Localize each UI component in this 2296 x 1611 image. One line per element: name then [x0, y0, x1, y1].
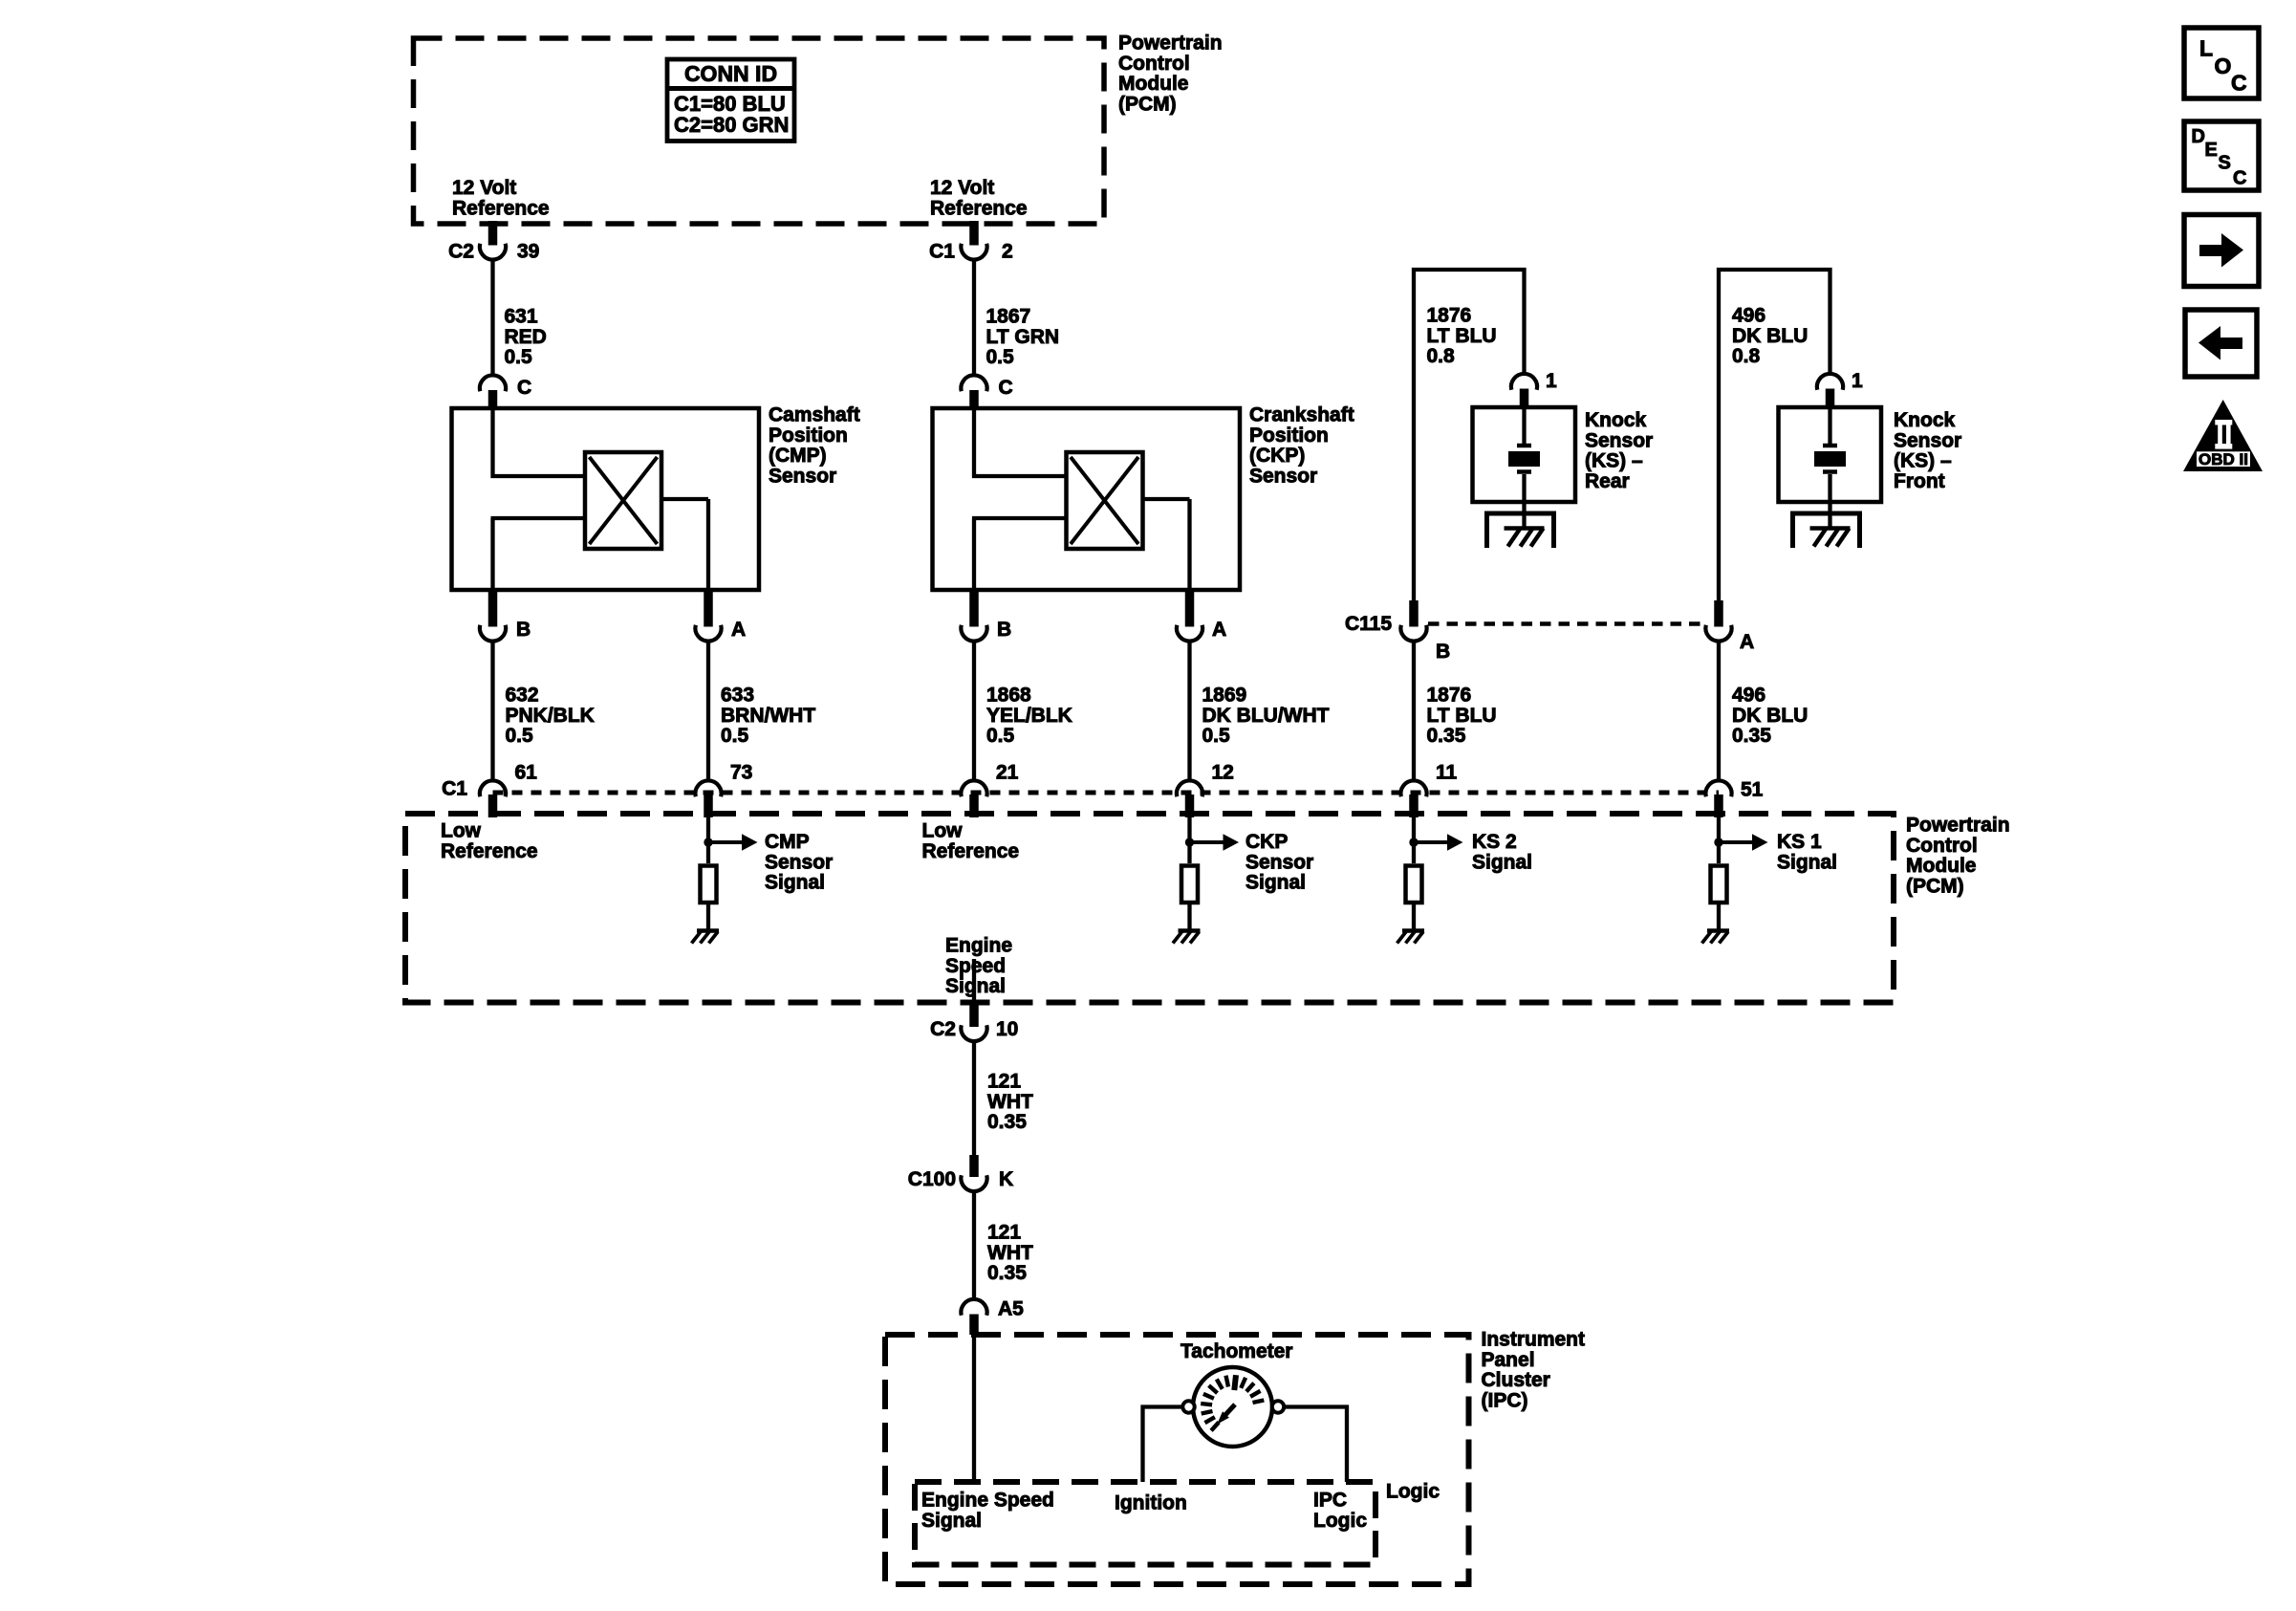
box: Crankshaft Position (CKP) Sensor	[933, 408, 1241, 590]
svg-text:LT BLU: LT BLU	[1427, 325, 1497, 347]
svg-text:1867: 1867	[986, 306, 1031, 328]
svg-text:Instrument: Instrument	[1482, 1329, 1586, 1351]
svg-text:C100: C100	[908, 1168, 956, 1190]
svg-text:Position: Position	[1249, 425, 1329, 446]
svg-text:C1: C1	[442, 778, 467, 800]
box: IPC Logic, dashed outline	[915, 1482, 1375, 1565]
svg-text:21: 21	[996, 762, 1019, 784]
table: CONN ID	[667, 59, 794, 142]
piezo element (KS rear)	[1508, 409, 1540, 528]
svg-text:12 Volt: 12 Volt	[930, 177, 994, 199]
svg-text:0.5: 0.5	[505, 346, 533, 368]
wire: CKP pin A internal	[1143, 499, 1190, 590]
ground (KS 1 signal)	[1702, 931, 1730, 944]
svg-text:D: D	[2192, 126, 2205, 147]
svg-text:0.8: 0.8	[1427, 345, 1456, 367]
box: Knock Sensor (KS) Rear	[1473, 407, 1576, 502]
label: wire 1868 YEL/BLK 0.5	[986, 685, 1072, 748]
wire 633 BRN/WHT 0.5	[706, 642, 710, 781]
svg-text:Engine Speed: Engine Speed	[921, 1490, 1054, 1512]
connector pin C of CKP sensor	[961, 375, 1012, 410]
svg-text:C2: C2	[930, 1018, 956, 1040]
connector pin A of CKP sensor	[1177, 590, 1226, 642]
svg-text:Reference: Reference	[452, 197, 550, 219]
svg-text:Sensor: Sensor	[1245, 851, 1313, 873]
svg-text:WHT: WHT	[987, 1242, 1033, 1264]
box: Knock Sensor (KS) Front	[1779, 407, 1882, 502]
svg-text:Panel: Panel	[1482, 1349, 1535, 1371]
svg-text:A5: A5	[998, 1298, 1024, 1320]
label: Logic	[1386, 1481, 1440, 1503]
label: KS 2 Signal	[1472, 831, 1532, 873]
svg-text:Control: Control	[1906, 835, 1978, 857]
wire 632 PNK/BLK 0.5	[490, 642, 494, 781]
connector pin B of CKP sensor	[961, 590, 1011, 642]
wire: CKP pin C internal	[972, 410, 1067, 478]
svg-text:39: 39	[517, 241, 539, 263]
svg-text:1876: 1876	[1427, 685, 1472, 707]
svg-text:B: B	[997, 619, 1011, 641]
connector pin 73 into PCM	[695, 762, 752, 818]
wire to ground (CKP)	[1187, 903, 1191, 929]
svg-text:0.5: 0.5	[721, 725, 749, 747]
label: wire 1876 LT BLU 0.35	[1427, 685, 1497, 748]
label: KS 1 Signal	[1777, 831, 1837, 873]
svg-text:632: 632	[506, 685, 539, 707]
svg-text:1: 1	[1852, 370, 1863, 392]
svg-text:121: 121	[987, 1222, 1021, 1244]
svg-text:O: O	[2215, 54, 2232, 78]
svg-text:WHT: WHT	[987, 1091, 1033, 1113]
svg-text:Reference: Reference	[922, 840, 1020, 862]
box: Powertrain Control Module (PCM) bottom, dashed outline	[405, 814, 1894, 1003]
label: Knock Sensor (KS) Rear	[1585, 409, 1653, 492]
resistor (CKP signal pull-up)	[1181, 866, 1198, 903]
label: wire 121 WHT 0.35 lower	[987, 1222, 1033, 1285]
label: wire 121 WHT 0.35 upper	[987, 1071, 1033, 1134]
icon: arrow left	[2185, 310, 2257, 377]
wire 1869 DK BLU/WHT 0.5	[1187, 642, 1191, 781]
svg-text:Logic: Logic	[1386, 1481, 1440, 1503]
resistor (CMP signal pull-up)	[701, 866, 717, 903]
svg-text:RED: RED	[505, 326, 547, 348]
svg-text:E: E	[2205, 140, 2218, 161]
svg-text:0.35: 0.35	[1732, 725, 1771, 747]
svg-text:(PCM): (PCM)	[1906, 875, 1964, 897]
wire: engine speed signal to PCM pin	[972, 959, 976, 1002]
svg-text:Signal: Signal	[1245, 872, 1306, 894]
svg-text:Sensor: Sensor	[769, 465, 836, 487]
svg-text:0.8: 0.8	[1732, 345, 1761, 367]
svg-text:Reference: Reference	[441, 840, 538, 862]
svg-text:0.35: 0.35	[1427, 725, 1466, 747]
svg-text:CONN ID: CONN ID	[684, 61, 777, 86]
svg-text:Sensor: Sensor	[765, 851, 833, 873]
svg-text:Rear: Rear	[1585, 470, 1630, 492]
connector C2 pin 10 (engine speed signal out)	[930, 1002, 1018, 1041]
svg-text:C115: C115	[1345, 613, 1392, 635]
label: wire 1867 LT GRN 0.5	[986, 306, 1060, 369]
svg-text:Signal: Signal	[1777, 851, 1837, 873]
connector C115 pin B	[1345, 600, 1450, 663]
svg-text:Signal: Signal	[921, 1510, 982, 1532]
svg-text:C: C	[2233, 168, 2246, 189]
label: wire 1869 DK BLU/WHT 0.5	[1202, 685, 1330, 748]
svg-text:(KS) –: (KS) –	[1894, 450, 1952, 472]
svg-text:0.35: 0.35	[987, 1111, 1027, 1133]
wire 496 DK BLU 0.8 (KS front feed)	[1719, 270, 1830, 603]
svg-text:CKP: CKP	[1245, 831, 1288, 853]
svg-text:496: 496	[1732, 305, 1765, 327]
wire: A5 to IPC logic	[972, 1337, 976, 1482]
svg-text:Powertrain: Powertrain	[1118, 33, 1223, 54]
label: Engine Speed Signal	[945, 935, 1012, 998]
connector pin C of CMP sensor	[480, 375, 531, 410]
label: CMP Sensor Signal	[765, 831, 833, 894]
svg-text:C: C	[999, 377, 1013, 399]
box: Instrument Panel Cluster (IPC), dashed outline	[885, 1335, 1469, 1584]
sensor element X (CMP)	[585, 452, 661, 549]
svg-text:KS 2: KS 2	[1472, 831, 1517, 853]
connector pin 12 into PCM	[1177, 762, 1234, 818]
resistor (KS 1 signal)	[1711, 866, 1727, 903]
box: Powertrain Control Module (PCM) top, dashed outline	[414, 38, 1105, 224]
svg-text:B: B	[516, 619, 531, 641]
wire + node: KS 1 signal	[1714, 816, 1767, 863]
svg-text:Module: Module	[1118, 73, 1189, 95]
svg-text:Knock: Knock	[1894, 409, 1956, 431]
svg-text:Low: Low	[441, 820, 482, 842]
wire 631 RED 0.5 (CMP 12V reference)	[490, 261, 494, 377]
wire: C115 connector boundary (dashed)	[1428, 621, 1704, 626]
svg-text:DK BLU: DK BLU	[1732, 705, 1808, 727]
svg-text:Crankshaft: Crankshaft	[1249, 404, 1354, 426]
label: wire 631 RED 0.5	[505, 306, 547, 369]
svg-text:(PCM): (PCM)	[1118, 93, 1177, 115]
svg-text:Sensor: Sensor	[1894, 429, 1961, 451]
svg-text:633: 633	[721, 685, 754, 707]
svg-text:1869: 1869	[1202, 685, 1247, 707]
svg-text:C1: C1	[929, 241, 955, 263]
wire 121 WHT 0.35 (lower)	[972, 1192, 976, 1300]
connector pin A of CMP sensor	[695, 590, 746, 642]
svg-text:Powertrain: Powertrain	[1906, 815, 2010, 837]
connector pin B of CMP sensor	[480, 590, 531, 642]
svg-text:A: A	[1740, 631, 1754, 653]
svg-text:Knock: Knock	[1585, 409, 1647, 431]
svg-text:Camshaft: Camshaft	[769, 404, 860, 426]
svg-text:Sensor: Sensor	[1249, 465, 1317, 487]
svg-text:Low: Low	[922, 820, 964, 842]
svg-text:0.5: 0.5	[986, 346, 1015, 368]
svg-text:OBD II: OBD II	[2199, 450, 2248, 468]
connector pin 61 into PCM	[480, 762, 537, 818]
svg-text:DK BLU: DK BLU	[1732, 325, 1808, 347]
label: Ignition	[1115, 1492, 1187, 1514]
label: Knock Sensor (KS) Front	[1894, 409, 1961, 492]
svg-text:S: S	[2219, 153, 2231, 174]
wire: CMP pin A internal	[661, 499, 708, 590]
svg-text:121: 121	[987, 1071, 1021, 1093]
connector pin 1 of front knock sensor	[1817, 370, 1863, 408]
svg-text:C: C	[2231, 71, 2247, 96]
connector C115 pin A	[1705, 600, 1754, 653]
svg-text:Reference: Reference	[930, 197, 1028, 219]
svg-text:B: B	[1436, 641, 1450, 663]
label: Low Reference (CKP)	[922, 820, 1020, 862]
label: wire 1876 LT BLU 0.8	[1427, 305, 1497, 368]
wire: PCM connector boundary C1 (dotted)	[493, 791, 1720, 795]
svg-text:0.5: 0.5	[1202, 725, 1231, 747]
svg-text:2: 2	[1002, 241, 1013, 263]
svg-text:IPC: IPC	[1313, 1490, 1347, 1512]
label: Tachometer	[1180, 1340, 1292, 1362]
svg-text:Logic: Logic	[1313, 1510, 1367, 1532]
svg-text:C2=80 GRN: C2=80 GRN	[674, 113, 789, 137]
svg-text:Cluster: Cluster	[1482, 1369, 1550, 1391]
label: Engine Speed Signal (IPC input)	[921, 1490, 1054, 1532]
sensor element X (CKP)	[1067, 452, 1143, 549]
wire to ground (KS 1)	[1717, 903, 1721, 929]
box: Camshaft Position (CMP) Sensor	[452, 408, 760, 590]
svg-text:CMP: CMP	[765, 831, 810, 853]
ground (KS rear case)	[1487, 513, 1554, 548]
wire 1876 LT BLU 0.35	[1412, 642, 1416, 781]
svg-text:1: 1	[1546, 370, 1557, 392]
svg-text:A: A	[731, 619, 746, 641]
svg-text:12: 12	[1212, 762, 1234, 784]
svg-text:1868: 1868	[986, 685, 1031, 707]
label: wire 633 BRN/WHT 0.5	[721, 685, 815, 748]
wire: ignition to tachometer	[1143, 1407, 1183, 1483]
svg-text:C: C	[517, 377, 531, 399]
ground (KS front case)	[1793, 513, 1860, 548]
svg-text:LT BLU: LT BLU	[1427, 705, 1497, 727]
icon: arrow right	[2184, 215, 2259, 287]
wire + node: CMP sensor signal	[704, 816, 757, 863]
connector pin 21 into PCM	[961, 762, 1018, 818]
label: Camshaft Position (CMP) Sensor	[769, 404, 860, 488]
svg-text:PNK/BLK: PNK/BLK	[506, 705, 595, 727]
wire: CMP pin B internal	[491, 518, 586, 590]
wire 121 WHT 0.35 (upper)	[972, 1042, 976, 1156]
wire: tachometer to IPC logic	[1285, 1407, 1348, 1483]
piezo element (KS front)	[1814, 409, 1846, 528]
wire: CKP pin B internal	[972, 518, 1067, 590]
connector pin A5 of IPC	[961, 1298, 1024, 1336]
svg-text:Position: Position	[769, 425, 848, 446]
svg-text:51: 51	[1741, 779, 1764, 801]
svg-text:LT GRN: LT GRN	[986, 326, 1060, 348]
svg-text:Control: Control	[1118, 53, 1190, 75]
wire to ground (CMP)	[706, 903, 710, 929]
icon: DESC	[2184, 121, 2259, 190]
connector C100 pin K	[908, 1155, 1013, 1191]
label: Crankshaft Position (CKP) Sensor	[1249, 404, 1354, 488]
icon: OBD II triangle	[2183, 400, 2263, 471]
svg-text:Signal: Signal	[765, 872, 825, 894]
svg-text:12 Volt: 12 Volt	[452, 177, 516, 199]
connector pin 51 into PCM	[1705, 779, 1763, 818]
svg-text:(CMP): (CMP)	[769, 445, 827, 467]
svg-text:0.5: 0.5	[986, 725, 1015, 747]
wire + node: CKP sensor signal	[1185, 816, 1239, 863]
label: 12 Volt Reference right	[930, 177, 1028, 219]
label: CKP Sensor Signal	[1245, 831, 1313, 894]
wire 496 DK BLU 0.35	[1717, 642, 1721, 781]
connector pin 11 into PCM	[1400, 762, 1457, 818]
svg-text:10: 10	[996, 1018, 1018, 1040]
svg-text:L: L	[2199, 36, 2213, 61]
svg-text:0.5: 0.5	[506, 725, 534, 747]
resistor (KS 2 signal)	[1406, 866, 1422, 903]
svg-text:61: 61	[515, 762, 538, 784]
connector C1 pin 2 (PCM to CKP 12V ref)	[929, 221, 1013, 263]
icon: LOC	[2184, 28, 2259, 98]
svg-text:1876: 1876	[1427, 305, 1472, 327]
svg-text:Sensor: Sensor	[1585, 429, 1653, 451]
ground (KS 2 signal)	[1397, 931, 1425, 944]
svg-text:DK BLU/WHT: DK BLU/WHT	[1202, 705, 1330, 727]
label: 12 Volt Reference left	[452, 177, 550, 219]
svg-text:(IPC): (IPC)	[1482, 1389, 1528, 1411]
svg-text:C2: C2	[448, 241, 474, 263]
label: wire 632 PNK/BLK 0.5	[506, 685, 595, 748]
ground (CMP signal)	[692, 931, 720, 944]
svg-text:Front: Front	[1894, 470, 1945, 492]
svg-text:(KS) –: (KS) –	[1585, 450, 1643, 472]
label: Powertrain Control Module (PCM) top right	[1118, 33, 1223, 116]
svg-text:0.35: 0.35	[987, 1262, 1027, 1284]
meter: tachometer gauge	[1182, 1367, 1284, 1447]
wire 1868 YEL/BLK 0.5	[972, 642, 976, 781]
connector C2 pin 39 (PCM to CMP 12V ref)	[448, 221, 539, 263]
svg-text:(CKP): (CKP)	[1249, 445, 1305, 467]
wire to ground (KS 2)	[1412, 903, 1416, 929]
svg-text:73: 73	[730, 762, 752, 784]
label: wire 496 DK BLU 0.35	[1732, 685, 1808, 748]
wire + node: KS 2 signal	[1409, 816, 1462, 863]
svg-text:YEL/BLK: YEL/BLK	[986, 705, 1072, 727]
svg-text:K: K	[999, 1168, 1013, 1190]
wire 1876 LT BLU 0.8 (KS rear feed)	[1414, 270, 1525, 603]
label: wire 496 DK BLU 0.8	[1732, 305, 1808, 368]
label: Instrument Panel Cluster (IPC)	[1482, 1329, 1586, 1412]
svg-text:Engine: Engine	[945, 935, 1012, 957]
svg-text:Ignition: Ignition	[1115, 1492, 1187, 1514]
svg-text:496: 496	[1732, 685, 1765, 707]
label: Powertrain Control Module (PCM) bottom right	[1906, 815, 2010, 898]
svg-text:Module: Module	[1906, 855, 1977, 877]
svg-text:11: 11	[1436, 762, 1458, 784]
label: IPC Logic	[1313, 1490, 1367, 1532]
svg-text:KS 1: KS 1	[1777, 831, 1822, 853]
svg-text:Signal: Signal	[1472, 851, 1532, 873]
connector pin 1 of rear knock sensor	[1511, 370, 1557, 408]
svg-text:631: 631	[505, 306, 538, 328]
ground (CKP signal)	[1173, 931, 1201, 944]
svg-text:Tachometer: Tachometer	[1180, 1340, 1292, 1362]
svg-text:A: A	[1212, 619, 1226, 641]
wire: CMP pin C internal	[491, 410, 586, 478]
svg-text:BRN/WHT: BRN/WHT	[721, 705, 815, 727]
wire 1867 LT GRN 0.5 (CKP 12V reference)	[972, 261, 976, 377]
label: Low Reference (CMP)	[441, 820, 538, 862]
label: C1 (PCM connector)	[442, 778, 467, 800]
